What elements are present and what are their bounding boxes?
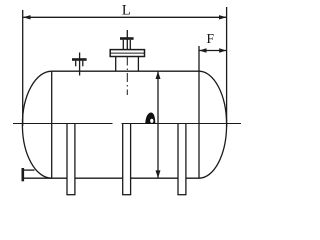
leg 1 (66, 124, 75, 195)
vertical dimension bottom arrowhead (156, 170, 161, 178)
manhole small neck left (122, 40, 124, 50)
tank top shell line (52, 70, 199, 72)
label D (rotated along vertical dimension, drawn as filled glyph) (145, 112, 155, 124)
dimension L left arrowhead (23, 15, 31, 19)
extension line right (L) (226, 7, 228, 127)
drain flange bar (21, 168, 24, 181)
nozzle stem (79, 53, 81, 76)
svg-text:F: F (207, 31, 215, 46)
tank bottom shell line (24, 177, 200, 179)
manhole small neck right (129, 40, 131, 50)
leg 2 (122, 124, 131, 195)
dimension F left arrowhead (199, 48, 206, 52)
svg-text:L: L (122, 2, 131, 18)
manhole flange midline (110, 52, 144, 54)
vertical dimension top arrowhead (156, 71, 161, 79)
dimension F right arrowhead (219, 48, 226, 52)
tank horizontal centerline (13, 123, 113, 125)
dimension F line (199, 50, 226, 52)
extension line left (L) (22, 10, 24, 126)
leg 3 (177, 124, 186, 195)
head tangent line right (F extension) (198, 46, 200, 178)
dimension L right arrowhead (219, 15, 227, 19)
head tangent line left (51, 71, 53, 178)
nozzle flange bar (72, 58, 87, 61)
dimension L line (23, 16, 226, 18)
drain pipe top line (24, 169, 35, 171)
manhole neck right (137, 57, 139, 71)
nozzle bolt left (75, 61, 77, 67)
manhole vertical centerline (dash-dot) (126, 57, 128, 96)
manhole flange rect (110, 50, 144, 57)
manhole top blind flange bar (120, 37, 134, 40)
tank left head (22, 71, 51, 178)
tank right head (199, 71, 227, 178)
manhole stem (126, 30, 128, 50)
manhole neck left (115, 57, 117, 71)
nozzle bolt right (82, 61, 84, 67)
vertical dimension D line (157, 72, 159, 178)
